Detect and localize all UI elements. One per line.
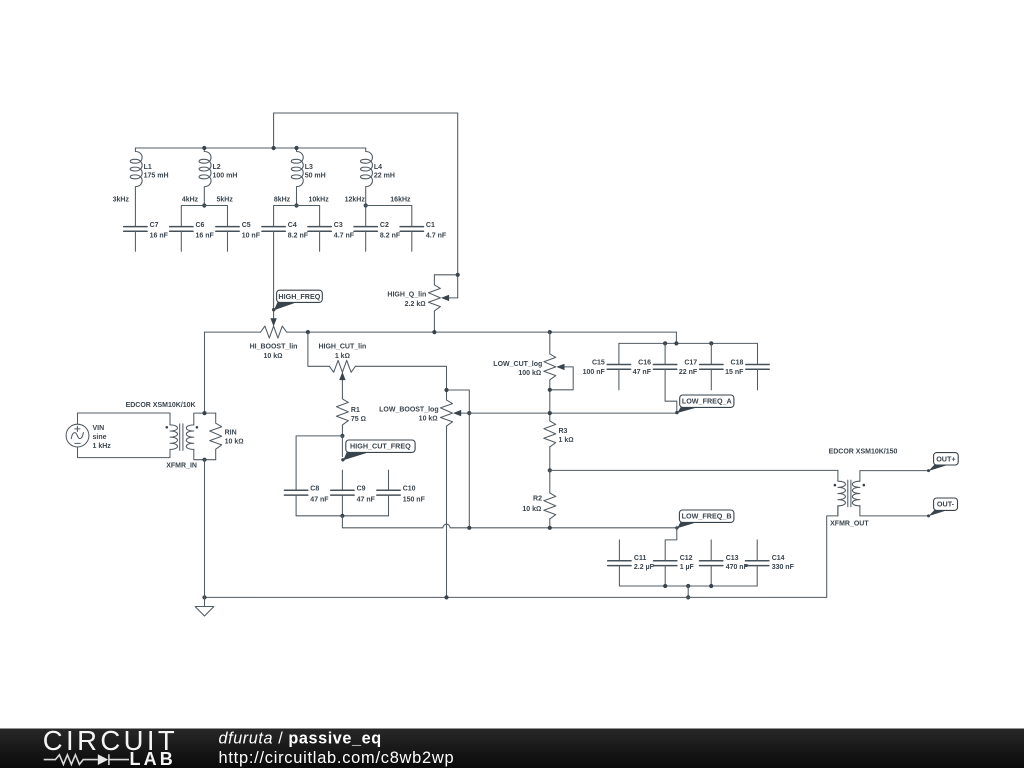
flag HIGH_CUT_FREQ [341, 440, 415, 461]
svg-text:16 nF: 16 nF [196, 233, 215, 240]
svg-text:L4: L4 [374, 164, 382, 171]
svg-text:22 mH: 22 mH [374, 173, 395, 180]
svg-text:75 Ω: 75 Ω [351, 416, 366, 423]
svg-text:16kHz: 16kHz [390, 197, 411, 204]
wire VIN loop bottom [78, 447, 171, 458]
svg-text:EDCOR XSM10K/10K: EDCOR XSM10K/10K [126, 402, 196, 409]
wire bracket to C8 [296, 436, 342, 490]
wire L4 bracket to C1, C2 below [366, 206, 412, 227]
svg-text:http://circuitlab.com/c8wb2wp: http://circuitlab.com/c8wb2wp [219, 749, 455, 767]
node R1/C9 junction [340, 434, 344, 438]
svg-text:LAB: LAB [130, 749, 176, 768]
svg-text:LOW_BOOST_log: LOW_BOOST_log [379, 406, 439, 413]
capacitor C14 [746, 555, 795, 586]
svg-text:47 nF: 47 nF [310, 496, 329, 503]
node stem top on cap bottom bus [686, 584, 690, 588]
inductor L4 [360, 148, 394, 206]
wire C9 lower lead [341, 470, 343, 489]
svg-text:150 nF: 150 nF [403, 496, 426, 503]
node LOW_BOOST top [444, 388, 448, 392]
svg-text:HIGH_FREQ: HIGH_FREQ [278, 292, 320, 301]
capacitor C12 [654, 555, 695, 586]
node LOW_BOOST wiper junction [467, 411, 471, 415]
node C9 bottom junction [340, 514, 344, 518]
svg-text:C13: C13 [726, 555, 739, 562]
svg-text:OUT+: OUT+ [936, 454, 955, 463]
svg-text:C18: C18 [731, 360, 744, 367]
svg-text:R3: R3 [559, 428, 568, 435]
wire HIGH_CUT right to LOW_BOOST top [355, 366, 446, 390]
wire right vertical down to HIGH_Q pot area [457, 113, 459, 298]
svg-text:50 mH: 50 mH [305, 173, 326, 180]
capacitor C8 [284, 486, 329, 516]
wire XFMR_IN secondary bottom to RIN [194, 449, 216, 459]
svg-text:22 nF: 22 nF [679, 369, 698, 376]
capacitor C13 [700, 555, 749, 586]
svg-text:47 nF: 47 nF [633, 369, 652, 376]
potentiometer HIGH_Q_lin [387, 275, 457, 332]
wire inductor top bus [135, 147, 365, 149]
svg-text:C9: C9 [357, 486, 366, 493]
node C12 bottom [663, 584, 667, 588]
wire main bus right segment [287, 331, 677, 333]
capacitor C11 [608, 555, 655, 586]
capacitor C10 [377, 486, 426, 516]
node L3 bottom junction [294, 203, 298, 207]
footer bar [0, 729, 1024, 768]
wire C13 top stub [710, 540, 712, 560]
wire C9 upper lead [341, 436, 343, 457]
svg-text:100 nF: 100 nF [583, 369, 606, 376]
svg-text:C5: C5 [242, 222, 251, 229]
svg-text:C10: C10 [403, 486, 416, 493]
wire R1 bottom to node [341, 425, 343, 436]
wire LOW_BOOST bottom long drop to ground bus [446, 426, 448, 597]
svg-text:2.2 µF: 2.2 µF [634, 564, 655, 571]
wire R3 node to XFMR_OUT primary [550, 469, 838, 471]
wire C11 top stub [618, 540, 620, 560]
wire riser from inductor bus to top wire [273, 113, 275, 148]
wire HIGH_CUT branch down and right [308, 332, 330, 366]
svg-text:L2: L2 [213, 164, 221, 171]
svg-text:10 kΩ: 10 kΩ [225, 439, 244, 446]
wire XFMR_OUT secondary bottom to OUT- [860, 506, 928, 516]
svg-text:C11: C11 [634, 555, 647, 562]
svg-text:C12: C12 [680, 555, 693, 562]
svg-text:8kHz: 8kHz [274, 197, 291, 204]
node LOW_CUT wiper/bottom junction [548, 388, 552, 392]
svg-text:1 kΩ: 1 kΩ [559, 437, 574, 444]
node L2 bottom junction [202, 203, 206, 207]
svg-text:330 nF: 330 nF [772, 564, 795, 571]
node ground bus / VIN drop [202, 595, 206, 599]
capacitor C3 [308, 222, 355, 252]
svg-text:2.2 kΩ: 2.2 kΩ [405, 301, 426, 308]
capacitor C6 [170, 222, 215, 252]
wire stem down to ground bus [687, 586, 689, 597]
voltage source VIN [66, 424, 111, 450]
svg-text:HIGH_Q_lin: HIGH_Q_lin [387, 292, 426, 299]
svg-text:C6: C6 [196, 222, 205, 229]
svg-text:HIGH_CUT_FREQ: HIGH_CUT_FREQ [350, 442, 411, 451]
svg-text:XFMR_IN: XFMR_IN [166, 463, 197, 470]
svg-text:HIGH_CUT_lin: HIGH_CUT_lin [318, 344, 366, 351]
capacitor C4 [262, 222, 309, 240]
wire C4 long lead down to HI_BOOST wiper [273, 231, 275, 318]
flag LOW_FREQ_B [675, 510, 734, 530]
svg-text:5kHz: 5kHz [217, 197, 234, 204]
wire ground bus [205, 596, 827, 598]
wire riser from main bus to C15-C18 top bus [675, 332, 677, 343]
inductor L2 [199, 146, 237, 206]
wire wiper vertical down to low bus [468, 413, 470, 528]
svg-text:C8: C8 [310, 486, 319, 493]
node riser on cap bus [674, 341, 678, 345]
svg-text:R1: R1 [351, 407, 360, 414]
wire HIGH_CUT wiper tail to R1 [341, 380, 343, 399]
node stem on ground bus [686, 595, 690, 599]
wire left drop from bus to XFMR_IN secondary [204, 332, 206, 413]
resistor R3 [544, 421, 574, 447]
svg-text:R2: R2 [533, 496, 542, 503]
svg-text:10 nF: 10 nF [242, 233, 261, 240]
capacitor C17 [679, 343, 723, 390]
svg-text:C1: C1 [426, 222, 435, 229]
node junction riser/bus [272, 146, 276, 150]
ground symbol [195, 597, 214, 616]
svg-text:sine: sine [93, 434, 107, 441]
capacitor C5 [216, 222, 261, 252]
node ground bus / LOW_BOOST drop [444, 595, 448, 599]
resistor R2 [522, 493, 555, 519]
svg-text:100 kΩ: 100 kΩ [518, 370, 541, 377]
svg-text:175 mH: 175 mH [144, 173, 169, 180]
wire VIN loop top [78, 413, 171, 425]
inductor L1 [130, 148, 168, 226]
potentiometer HIGH_CUT_lin [318, 344, 366, 381]
transformer XFMR_OUT [829, 448, 898, 527]
svg-text:15 nF: 15 nF [725, 369, 744, 376]
wire low bus y527.8 with hop over LOW_BOOST drop [342, 524, 676, 528]
node R3/R2/XFMR_OUT junction [548, 468, 552, 472]
svg-text:C16: C16 [638, 360, 651, 367]
wire LOW_FREQ_B elbow down to C12 [665, 528, 677, 560]
node LOW_CUT bottom on mid bus [548, 411, 552, 415]
svg-text:4kHz: 4kHz [182, 197, 199, 204]
svg-text:10 kΩ: 10 kΩ [263, 353, 282, 360]
svg-text:47 nF: 47 nF [357, 496, 376, 503]
wire node to R2 top [549, 470, 551, 493]
svg-text:LOW_CUT_log: LOW_CUT_log [493, 361, 542, 368]
capacitor C15 [583, 343, 631, 390]
svg-text:C14: C14 [772, 555, 785, 562]
node low bus/R2 [548, 526, 552, 530]
svg-text:OUT-: OUT- [937, 500, 955, 509]
node C16 on cap bus [663, 341, 667, 345]
node bus/LOW_CUT top [548, 330, 552, 334]
flag HIGH_FREQ [272, 290, 322, 311]
svg-text:RIN: RIN [225, 429, 237, 436]
capacitor C18 [725, 343, 769, 390]
svg-text:XFMR_OUT: XFMR_OUT [830, 520, 869, 527]
svg-text:C3: C3 [334, 222, 343, 229]
svg-text:LOW_FREQ_A: LOW_FREQ_A [682, 397, 732, 406]
inductor L3 [291, 146, 325, 206]
node bus/HIGH_Q bottom [432, 330, 436, 334]
svg-text:L3: L3 [305, 164, 313, 171]
transformer XFMR_IN [126, 402, 199, 470]
wire C15-C18 top bus [619, 342, 758, 344]
potentiometer LOW_CUT_log [493, 332, 573, 421]
wire R3 bottom to node [549, 447, 551, 471]
wire XFMR_IN secondary top to RIN [194, 413, 216, 425]
wire drop to ground bus [204, 460, 206, 598]
node C17 on cap bus [709, 341, 713, 345]
svg-text:10 kΩ: 10 kΩ [522, 506, 541, 513]
node secondary bottom / ground drop [202, 458, 206, 462]
node low bus/wiper vertical [467, 526, 471, 530]
svg-text:HI_BOOST_lin: HI_BOOST_lin [250, 344, 298, 351]
wire stem C9 bus down to low bus [341, 516, 343, 528]
svg-text:16 nF: 16 nF [150, 233, 169, 240]
node L4 bottom junction [364, 203, 368, 207]
svg-text:12kHz: 12kHz [345, 197, 366, 204]
flag OUT- [927, 498, 958, 517]
resistor R1 [336, 399, 366, 425]
potentiometer LOW_BOOST_log [379, 390, 469, 426]
svg-text:EDCOR XSM10K/150: EDCOR XSM10K/150 [829, 448, 898, 455]
svg-text:VIN: VIN [93, 425, 105, 432]
svg-text:4.7 nF: 4.7 nF [334, 233, 355, 240]
svg-text:100 mH: 100 mH [213, 173, 238, 180]
wire mid bus y413 to LOW_FREQ_A tip [469, 412, 677, 414]
svg-text:8.2 nF: 8.2 nF [380, 233, 401, 240]
wire C11-C14 bottom bus [619, 585, 757, 587]
wire XFMR_OUT primary bottom to ground bus [827, 506, 838, 598]
capacitor C7 [124, 222, 169, 252]
wire C10 top lead [388, 470, 390, 489]
svg-text:4.7 nF: 4.7 nF [426, 233, 447, 240]
resistor RIN [210, 413, 244, 460]
wire C8-C10 bottom bus [296, 515, 388, 517]
svg-text:LOW_FREQ_B: LOW_FREQ_B [682, 512, 732, 521]
node C13 bottom [709, 584, 713, 588]
svg-text:L1: L1 [144, 164, 152, 171]
svg-text:10 kΩ: 10 kΩ [419, 416, 438, 423]
wire XFMR_OUT secondary top to OUT+ [860, 471, 928, 482]
flag LOW_FREQ_A [675, 395, 734, 414]
svg-text:1 kΩ: 1 kΩ [335, 353, 350, 360]
svg-text:8.2 nF: 8.2 nF [288, 233, 309, 240]
svg-text:C2: C2 [380, 222, 389, 229]
capacitor C16 [633, 343, 677, 412]
capacitor C1 [400, 222, 447, 252]
wire L2 bracket to C6 and C5 [181, 206, 227, 227]
svg-text:C15: C15 [592, 360, 605, 367]
wire R2 bottom to low bus [549, 519, 551, 528]
node HIGH_Q top junction [456, 273, 460, 277]
svg-text:C7: C7 [150, 222, 159, 229]
svg-text:1 µF: 1 µF [680, 564, 695, 571]
svg-text:C4: C4 [288, 222, 297, 229]
capacitor C9 [331, 486, 376, 516]
wire top horizontal from riser to HIGH_Q branch [274, 112, 458, 114]
flag OUT+ [927, 453, 958, 473]
wire main bus left segment to HI_BOOST [205, 331, 261, 333]
CircuitLab logo resistor-diode glyph [44, 754, 129, 765]
svg-text:3kHz: 3kHz [113, 197, 130, 204]
wire L3 bracket to C4 and C3 [274, 206, 320, 227]
wire C14 top stub [756, 540, 758, 560]
node bus/HIGH_CUT branch [306, 330, 310, 334]
node secondary top / bus drop [202, 411, 206, 415]
svg-text:1 kHz: 1 kHz [93, 443, 112, 450]
capacitor C2 [354, 222, 401, 252]
svg-text:10kHz: 10kHz [308, 197, 329, 204]
potentiometer HI_BOOST_lin [250, 318, 298, 360]
svg-text:C17: C17 [684, 360, 697, 367]
svg-text:dfuruta / passive_eq: dfuruta / passive_eq [219, 730, 382, 748]
